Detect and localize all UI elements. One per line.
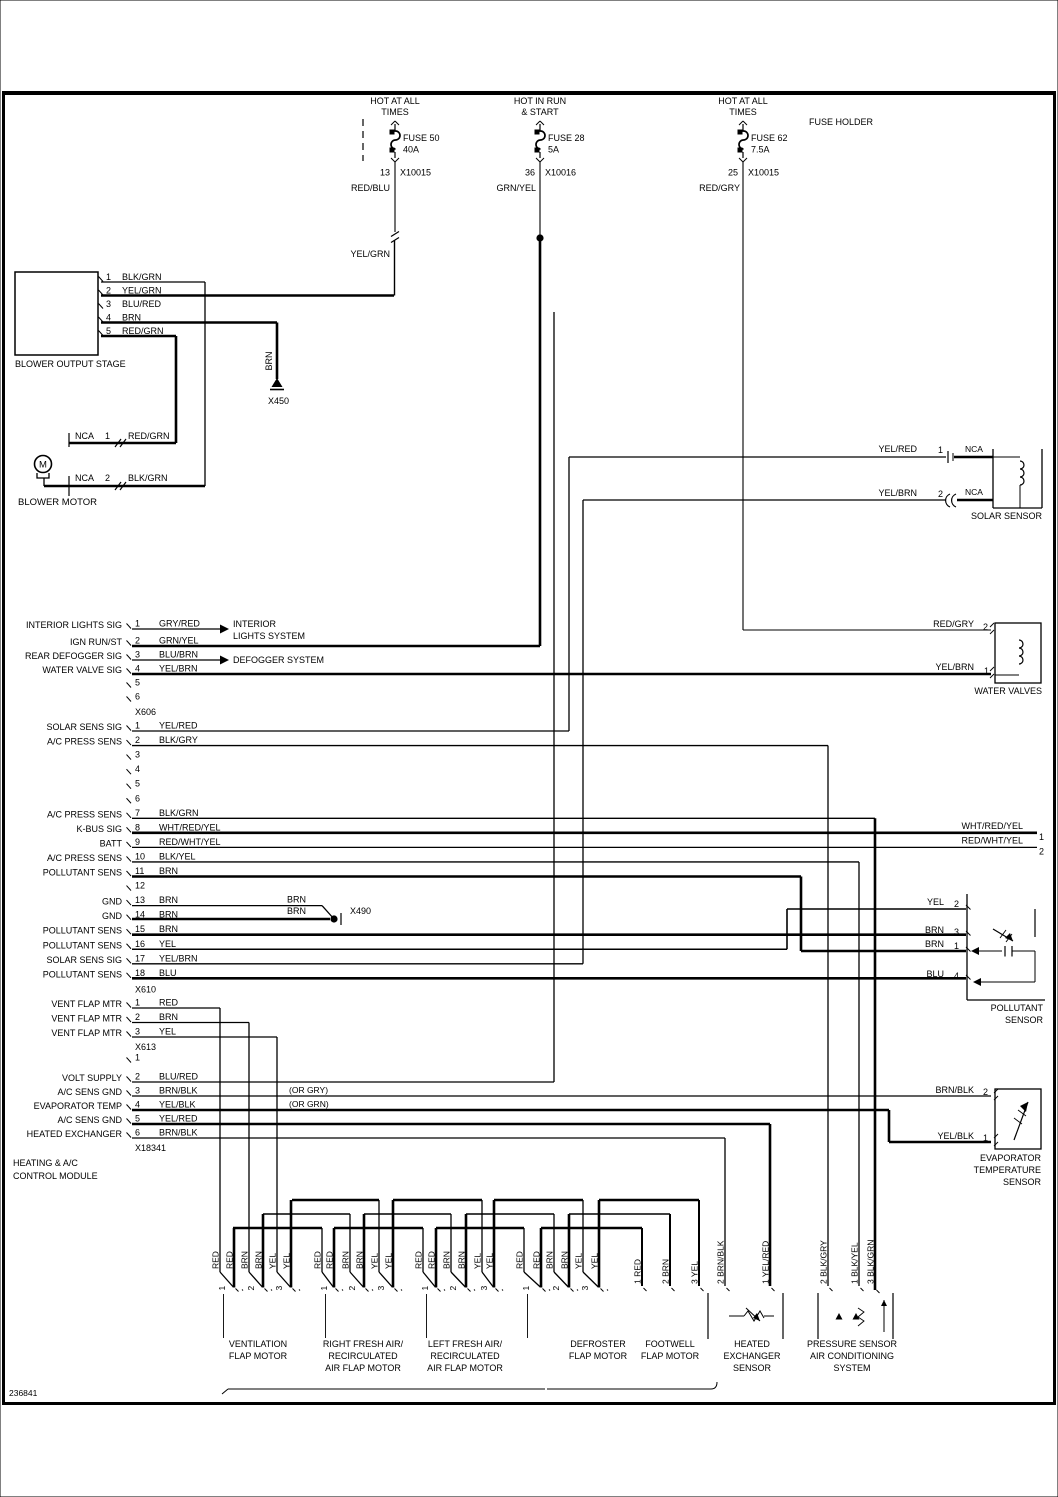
svg-text:YEL: YEL: [268, 1253, 278, 1269]
svg-text:YEL/GRN: YEL/GRN: [350, 249, 390, 259]
svg-text:VOLT SUPPLY: VOLT SUPPLY: [62, 1073, 122, 1083]
svg-text:1: 1: [521, 1286, 531, 1291]
svg-text:2: 2: [135, 1072, 140, 1082]
svg-text:BLK/GRN: BLK/GRN: [128, 473, 168, 483]
svg-text:BLK/GRN: BLK/GRN: [122, 272, 162, 282]
svg-text:1: 1: [135, 998, 140, 1008]
svg-text:RED: RED: [159, 998, 179, 1008]
svg-text:2 BRN/BLK: 2 BRN/BLK: [716, 1240, 726, 1284]
svg-text:3: 3: [580, 1286, 590, 1291]
svg-text:IGN RUN/ST: IGN RUN/ST: [70, 637, 123, 647]
svg-text:X10015: X10015: [748, 168, 779, 178]
svg-text:BRN: BRN: [560, 1251, 570, 1269]
svg-text:SENSOR: SENSOR: [1005, 1015, 1044, 1025]
svg-text:X450: X450: [268, 396, 289, 406]
svg-text:X18341: X18341: [135, 1143, 166, 1153]
svg-text:YEL/BLK: YEL/BLK: [937, 1131, 974, 1141]
svg-text:2: 2: [983, 1087, 988, 1097]
svg-text:BRN: BRN: [254, 1251, 264, 1269]
svg-text:YEL/BRN: YEL/BRN: [878, 488, 917, 498]
svg-text:RED/WHT/YEL: RED/WHT/YEL: [159, 837, 221, 847]
svg-text:POLLUTANT: POLLUTANT: [991, 1003, 1044, 1013]
svg-text:1: 1: [135, 619, 140, 629]
svg-text:RECIRCULATED: RECIRCULATED: [430, 1351, 500, 1361]
svg-text:1: 1: [105, 431, 110, 441]
svg-text:TIMES: TIMES: [729, 107, 757, 117]
svg-text:LIGHTS SYSTEM: LIGHTS SYSTEM: [233, 631, 305, 641]
svg-text:2: 2: [938, 489, 943, 499]
svg-text:YEL/RED: YEL/RED: [159, 721, 198, 731]
svg-text:2: 2: [1039, 846, 1044, 856]
svg-text:RED: RED: [225, 1251, 235, 1269]
svg-text:BLU/BRN: BLU/BRN: [159, 650, 198, 660]
svg-text:YEL: YEL: [384, 1253, 394, 1269]
svg-text:BLK/GRY: BLK/GRY: [159, 735, 198, 745]
svg-text:X610: X610: [135, 984, 156, 994]
svg-text:A/C PRESS SENS: A/C PRESS SENS: [47, 853, 122, 863]
svg-text:3: 3: [274, 1286, 284, 1291]
svg-text:NCA: NCA: [965, 487, 983, 497]
svg-text:FOOTWELL: FOOTWELL: [645, 1339, 695, 1349]
svg-text:DEFROSTER: DEFROSTER: [570, 1339, 626, 1349]
svg-text:POLLUTANT SENS: POLLUTANT SENS: [43, 940, 122, 950]
svg-text:5: 5: [135, 1114, 140, 1124]
svg-text:4: 4: [135, 764, 140, 774]
svg-text:TIMES: TIMES: [381, 107, 409, 117]
svg-text:6: 6: [135, 793, 140, 803]
svg-text:BLU: BLU: [926, 969, 944, 979]
svg-text:BLU/RED: BLU/RED: [159, 1072, 199, 1082]
svg-text:HEATING & A/C: HEATING & A/C: [13, 1158, 78, 1168]
svg-text:A/C PRESS SENS: A/C PRESS SENS: [47, 737, 122, 747]
svg-text:A/C SENS GND: A/C SENS GND: [57, 1087, 122, 1097]
svg-text:HOT AT ALL: HOT AT ALL: [370, 96, 420, 106]
svg-text:BRN/BLK: BRN/BLK: [159, 1128, 198, 1138]
svg-text:7.5A: 7.5A: [751, 145, 770, 155]
svg-text:RED: RED: [325, 1251, 335, 1269]
svg-text:AIR CONDITIONING: AIR CONDITIONING: [810, 1351, 894, 1361]
svg-text:GRN/YEL: GRN/YEL: [159, 636, 199, 646]
svg-text:EVAPORATOR TEMP: EVAPORATOR TEMP: [34, 1101, 122, 1111]
svg-text:BRN: BRN: [240, 1251, 250, 1269]
svg-text:SENSOR: SENSOR: [733, 1363, 772, 1373]
svg-text:RED: RED: [532, 1251, 542, 1269]
svg-text:BLU/RED: BLU/RED: [122, 299, 162, 309]
svg-text:1: 1: [217, 1286, 227, 1291]
svg-text:2: 2: [551, 1286, 561, 1291]
svg-text:2: 2: [246, 1286, 256, 1291]
svg-text:10: 10: [135, 851, 145, 861]
svg-text:2: 2: [106, 286, 111, 296]
svg-text:BRN: BRN: [925, 939, 944, 949]
svg-text:YEL: YEL: [485, 1253, 495, 1269]
svg-text:4: 4: [954, 971, 959, 981]
svg-text:RED: RED: [414, 1251, 424, 1269]
svg-text:1: 1: [106, 272, 111, 282]
svg-text:A/C SENS GND: A/C SENS GND: [57, 1115, 122, 1125]
svg-text:18: 18: [135, 968, 145, 978]
svg-text:FLAP MOTOR: FLAP MOTOR: [569, 1351, 628, 1361]
svg-text:BRN: BRN: [545, 1251, 555, 1269]
svg-text:BRN: BRN: [287, 906, 306, 916]
svg-text:4: 4: [135, 664, 140, 674]
svg-text:BLOWER MOTOR: BLOWER MOTOR: [18, 497, 97, 508]
svg-text:1 YEL/RED: 1 YEL/RED: [761, 1241, 771, 1284]
svg-text:5: 5: [106, 326, 111, 336]
svg-text:2: 2: [347, 1286, 357, 1291]
svg-text:BLK/GRN: BLK/GRN: [159, 808, 199, 818]
svg-text:NCA: NCA: [75, 431, 94, 441]
svg-text:11: 11: [135, 866, 144, 876]
svg-text:BRN: BRN: [925, 925, 944, 935]
svg-text:YEL/BRN: YEL/BRN: [159, 664, 198, 674]
svg-text:3: 3: [376, 1286, 386, 1291]
svg-text:X10015: X10015: [400, 168, 431, 178]
svg-text:WHT/RED/YEL: WHT/RED/YEL: [159, 822, 221, 832]
svg-text:EVAPORATOR: EVAPORATOR: [980, 1153, 1042, 1163]
svg-text:BRN: BRN: [355, 1251, 365, 1269]
svg-text:HEATED: HEATED: [734, 1339, 770, 1349]
svg-text:2 BRN: 2 BRN: [661, 1259, 671, 1284]
svg-text:2 BLK/GRY: 2 BLK/GRY: [819, 1240, 829, 1284]
svg-text:6: 6: [135, 1128, 140, 1138]
svg-text:3: 3: [954, 927, 959, 937]
svg-text:BRN: BRN: [159, 924, 178, 934]
svg-text:YEL/RED: YEL/RED: [159, 1114, 198, 1124]
svg-text:YEL: YEL: [370, 1253, 380, 1269]
svg-text:1 RED: 1 RED: [633, 1259, 643, 1284]
svg-text:PRESSURE SENSOR: PRESSURE SENSOR: [807, 1339, 898, 1349]
svg-text:TEMPERATURE: TEMPERATURE: [974, 1165, 1041, 1175]
svg-text:RED/BLU: RED/BLU: [351, 183, 390, 193]
svg-text:LEFT FRESH AIR/: LEFT FRESH AIR/: [428, 1339, 503, 1349]
svg-text:1: 1: [135, 1053, 140, 1063]
svg-text:K-BUS SIG: K-BUS SIG: [76, 824, 122, 834]
svg-text:BRN: BRN: [457, 1251, 467, 1269]
svg-text:BLU: BLU: [159, 968, 177, 978]
svg-text:3: 3: [479, 1286, 489, 1291]
svg-text:AIR FLAP MOTOR: AIR FLAP MOTOR: [427, 1363, 503, 1373]
svg-text:BRN: BRN: [264, 351, 274, 370]
svg-text:BRN: BRN: [159, 895, 178, 905]
svg-text:YEL: YEL: [473, 1253, 483, 1269]
svg-text:YEL/BLK: YEL/BLK: [159, 1100, 196, 1110]
svg-text:RED/WHT/YEL: RED/WHT/YEL: [961, 835, 1023, 845]
svg-text:1: 1: [319, 1286, 329, 1291]
svg-text:RED/GRY: RED/GRY: [933, 619, 974, 629]
svg-text:4: 4: [106, 313, 111, 323]
svg-text:A/C PRESS SENS: A/C PRESS SENS: [47, 809, 122, 819]
svg-text:FUSE 50: FUSE 50: [403, 133, 440, 143]
svg-text:RED: RED: [313, 1251, 323, 1269]
svg-text:HEATED EXCHANGER: HEATED EXCHANGER: [27, 1129, 123, 1139]
svg-text:X10016: X10016: [545, 168, 576, 178]
svg-text:16: 16: [135, 939, 145, 949]
svg-text:(OR GRY): (OR GRY): [289, 1085, 328, 1095]
svg-text:3: 3: [135, 650, 140, 660]
svg-text:13: 13: [380, 168, 390, 178]
svg-text:YEL: YEL: [282, 1253, 292, 1269]
svg-text:1: 1: [954, 941, 959, 951]
svg-text:VENT FLAP MTR: VENT FLAP MTR: [51, 1014, 122, 1024]
svg-text:3 BLK/GRN: 3 BLK/GRN: [866, 1240, 876, 1284]
svg-text:1: 1: [938, 445, 943, 455]
svg-text:17: 17: [135, 953, 145, 963]
svg-text:VENT FLAP MTR: VENT FLAP MTR: [51, 999, 122, 1009]
svg-text:SOLAR SENS SIG: SOLAR SENS SIG: [46, 955, 122, 965]
svg-text:WHT/RED/YEL: WHT/RED/YEL: [961, 821, 1023, 831]
svg-text:6: 6: [135, 692, 140, 702]
svg-text:3: 3: [135, 750, 140, 760]
svg-text:YEL: YEL: [927, 897, 944, 907]
svg-text:GRN/YEL: GRN/YEL: [496, 183, 536, 193]
svg-text:WATER VALVE SIG: WATER VALVE SIG: [42, 665, 122, 675]
svg-text:X613: X613: [135, 1042, 156, 1052]
svg-text:2: 2: [448, 1286, 458, 1291]
svg-text:2: 2: [135, 636, 140, 646]
svg-text:1: 1: [1039, 832, 1044, 842]
svg-text:9: 9: [135, 837, 140, 847]
svg-text:4: 4: [135, 1100, 140, 1110]
svg-text:YEL: YEL: [159, 939, 176, 949]
svg-text:INTERIOR LIGHTS SIG: INTERIOR LIGHTS SIG: [26, 620, 122, 630]
svg-text:DEFOGGER SYSTEM: DEFOGGER SYSTEM: [233, 655, 324, 665]
svg-text:BRN: BRN: [159, 866, 178, 876]
svg-text:YEL: YEL: [159, 1027, 176, 1037]
svg-text:EXCHANGER: EXCHANGER: [723, 1351, 781, 1361]
svg-text:2: 2: [135, 735, 140, 745]
svg-text:RED/GRN: RED/GRN: [128, 431, 170, 441]
svg-text:1: 1: [983, 1133, 988, 1143]
svg-text:5: 5: [135, 678, 140, 688]
svg-text:(OR GRN): (OR GRN): [289, 1099, 329, 1109]
svg-text:3: 3: [106, 299, 111, 309]
svg-text:VENT FLAP MTR: VENT FLAP MTR: [51, 1028, 122, 1038]
svg-text:YEL/RED: YEL/RED: [878, 444, 917, 454]
svg-text:SOLAR SENS SIG: SOLAR SENS SIG: [46, 722, 122, 732]
svg-text:BRN/BLK: BRN/BLK: [159, 1086, 198, 1096]
svg-text:FLAP MOTOR: FLAP MOTOR: [229, 1351, 288, 1361]
svg-text:SYSTEM: SYSTEM: [833, 1363, 870, 1373]
svg-text:3: 3: [135, 1086, 140, 1096]
svg-text:RED/GRY: RED/GRY: [699, 183, 740, 193]
svg-text:FUSE 28: FUSE 28: [548, 133, 585, 143]
svg-text:25: 25: [728, 168, 738, 178]
svg-text:POLLUTANT SENS: POLLUTANT SENS: [43, 926, 122, 936]
svg-text:X490: X490: [350, 906, 371, 916]
svg-text:3 YEL: 3 YEL: [690, 1261, 700, 1284]
svg-text:RED: RED: [427, 1251, 437, 1269]
svg-text:VENTILATION: VENTILATION: [229, 1339, 287, 1349]
svg-text:13: 13: [135, 895, 145, 905]
svg-text:& START: & START: [521, 107, 559, 117]
svg-text:YEL/BRN: YEL/BRN: [935, 662, 974, 672]
svg-text:236841: 236841: [9, 1388, 38, 1398]
svg-text:15: 15: [135, 924, 145, 934]
svg-text:7: 7: [135, 808, 140, 818]
svg-text:2: 2: [983, 622, 988, 632]
svg-text:POLLUTANT SENS: POLLUTANT SENS: [43, 868, 122, 878]
svg-text:1: 1: [135, 721, 140, 731]
svg-text:HOT IN RUN: HOT IN RUN: [514, 96, 566, 106]
svg-text:RED: RED: [515, 1251, 525, 1269]
svg-text:X606: X606: [135, 707, 156, 717]
svg-text:REAR DEFOGGER SIG: REAR DEFOGGER SIG: [25, 651, 122, 661]
svg-text:2: 2: [954, 899, 959, 909]
svg-text:FUSE 62: FUSE 62: [751, 133, 788, 143]
svg-text:NCA: NCA: [965, 444, 983, 454]
svg-text:BLOWER OUTPUT STAGE: BLOWER OUTPUT STAGE: [15, 359, 126, 369]
svg-text:SENSOR: SENSOR: [1003, 1177, 1042, 1187]
svg-text:BLK/YEL: BLK/YEL: [159, 851, 196, 861]
svg-text:2: 2: [105, 473, 110, 483]
svg-text:YEL/BRN: YEL/BRN: [159, 953, 198, 963]
svg-text:1: 1: [984, 666, 989, 676]
svg-text:RED/GRN: RED/GRN: [122, 326, 164, 336]
svg-text:M: M: [39, 460, 47, 471]
svg-text:RIGHT FRESH AIR/: RIGHT FRESH AIR/: [323, 1339, 404, 1349]
svg-text:BRN: BRN: [287, 895, 306, 905]
svg-text:5: 5: [135, 779, 140, 789]
svg-text:GRY/RED: GRY/RED: [159, 619, 200, 629]
svg-text:BRN/BLK: BRN/BLK: [935, 1085, 974, 1095]
svg-text:GND: GND: [102, 911, 123, 921]
svg-text:8: 8: [135, 822, 140, 832]
svg-text:RED: RED: [211, 1251, 221, 1269]
svg-text:12: 12: [135, 881, 145, 891]
svg-text:SOLAR SENSOR: SOLAR SENSOR: [971, 511, 1043, 521]
svg-text:FLAP MOTOR: FLAP MOTOR: [641, 1351, 700, 1361]
svg-text:2: 2: [135, 1012, 140, 1022]
svg-text:40A: 40A: [403, 145, 419, 155]
svg-text:1: 1: [420, 1286, 430, 1291]
svg-text:WATER VALVES: WATER VALVES: [974, 686, 1042, 696]
svg-text:CONTROL MODULE: CONTROL MODULE: [13, 1171, 98, 1181]
svg-text:POLLUTANT SENS: POLLUTANT SENS: [43, 969, 122, 979]
svg-text:YEL/GRN: YEL/GRN: [122, 286, 162, 296]
svg-text:YEL: YEL: [574, 1253, 584, 1269]
svg-text:BRN: BRN: [159, 1012, 178, 1022]
svg-text:INTERIOR: INTERIOR: [233, 619, 277, 629]
svg-text:BATT: BATT: [100, 838, 123, 848]
svg-text:YEL: YEL: [590, 1253, 600, 1269]
svg-text:36: 36: [525, 168, 535, 178]
svg-text:HOT AT ALL: HOT AT ALL: [718, 96, 768, 106]
svg-text:RECIRCULATED: RECIRCULATED: [328, 1351, 398, 1361]
svg-text:BRN: BRN: [341, 1251, 351, 1269]
svg-text:AIR FLAP MOTOR: AIR FLAP MOTOR: [325, 1363, 401, 1373]
svg-text:GND: GND: [102, 897, 123, 907]
svg-text:NCA: NCA: [75, 473, 94, 483]
svg-text:BRN: BRN: [122, 313, 141, 323]
svg-text:BRN: BRN: [442, 1251, 452, 1269]
svg-text:5A: 5A: [548, 145, 559, 155]
svg-text:FUSE HOLDER: FUSE HOLDER: [809, 117, 874, 127]
svg-text:3: 3: [135, 1027, 140, 1037]
svg-text:1 BLK/YEL: 1 BLK/YEL: [850, 1242, 860, 1284]
